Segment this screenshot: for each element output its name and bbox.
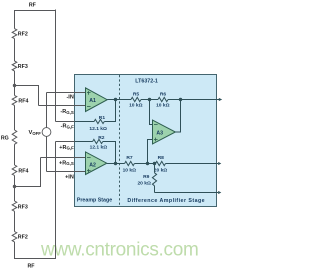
node A2 out (114, 162, 117, 165)
svg-text:-IN: -IN (66, 95, 73, 101)
node A3 ref tap (146, 162, 149, 165)
wire: +RG,F row (56, 141, 93, 143)
wire: R5-R6 link (141, 99, 158, 101)
wire: right column lower (55, 142, 57, 259)
ref arrow mid (218, 162, 221, 165)
A2 minus (87, 157, 91, 159)
resistor RF2 (top) (12, 29, 17, 39)
output arrow top (219, 98, 222, 101)
svg-text:RF3: RF3 (18, 204, 28, 210)
svg-text:12.1 kΩ: 12.1 kΩ (89, 126, 107, 132)
svg-text:RF4: RF4 (18, 168, 28, 174)
wire: -IN row (47, 92, 86, 94)
svg-text:Difference Amplifier Stage: Difference Amplifier Stage (127, 198, 205, 204)
resistor R1 (94, 119, 104, 123)
wire: R9 bottom out (155, 192, 219, 194)
svg-text:+RG,S: +RG,S (59, 160, 74, 166)
wire: +IN row (47, 171, 86, 173)
arrow bottom (218, 191, 221, 194)
svg-text:RF3: RF3 (18, 64, 28, 70)
wire: A3 out loop (175, 100, 180, 133)
wire: VOFF upper stem (46, 93, 48, 128)
wire: A1 out row (107, 99, 131, 101)
node R5/R6 tap (148, 98, 151, 101)
wire: -RG,S row (39, 105, 86, 107)
svg-text:-RG,S: -RG,S (60, 109, 73, 115)
svg-text:10 kΩ: 10 kΩ (156, 102, 170, 108)
wire: top rail RF (14, 10, 56, 12)
resistor RG (12, 130, 17, 144)
svg-text:RF: RF (27, 264, 35, 270)
resistor R6 (158, 97, 168, 101)
node A1 out (114, 98, 117, 101)
svg-text:10 kΩ: 10 kΩ (129, 102, 143, 108)
svg-text:RF2: RF2 (18, 235, 28, 241)
op-amp A3 (153, 120, 176, 144)
svg-text:Preamp Stage: Preamp Stage (77, 198, 112, 204)
svg-text:RF4: RF4 (18, 99, 28, 105)
svg-text:20 kΩ: 20 kΩ (154, 167, 168, 173)
svg-text:LT6372-1: LT6372-1 (135, 79, 158, 85)
wire: right column upper (55, 10, 57, 122)
stage divider (dashed) (119, 75, 121, 206)
svg-text:R6: R6 (160, 92, 167, 98)
svg-text:RF: RF (29, 2, 37, 8)
IC block LT6372-1 (75, 75, 217, 207)
node R9 tap (153, 162, 156, 165)
wire: A2 out row (107, 163, 125, 165)
A3 plus (154, 139, 158, 141)
resistor RF4 (top) (12, 95, 17, 105)
svg-text:-RG,F: -RG,F (61, 124, 74, 130)
wire: +RG,S row (41, 157, 86, 159)
svg-text:R7: R7 (126, 155, 133, 161)
svg-text:+IN: +IN (65, 175, 74, 181)
svg-text:10 kΩ: 10 kΩ (123, 167, 137, 173)
node: +RG,S tap junction (13, 185, 16, 188)
A2 plus (87, 170, 91, 172)
wire: R2 right + down to A2 out (103, 142, 116, 164)
svg-text:20 kΩ: 20 kΩ (137, 180, 151, 186)
node: -RG,S tap junction (13, 84, 16, 87)
A3 minus (154, 124, 158, 126)
svg-text:www.cntronics.com: www.cntronics.com (40, 240, 199, 261)
svg-text:+RG,F: +RG,F (59, 145, 74, 151)
resistor RF3 (bottom) (12, 201, 17, 211)
resistor R7 (125, 161, 135, 165)
wire: A3 plus tap (148, 140, 153, 164)
resistor R5 (131, 97, 141, 101)
svg-text:12.1 kΩ: 12.1 kΩ (90, 145, 108, 151)
svg-text:R1: R1 (99, 115, 106, 121)
A1 minus (87, 106, 91, 108)
wire: -RG,F row (56, 121, 95, 123)
wire: +RG,S jog (15, 158, 41, 187)
svg-text:RG: RG (1, 135, 9, 141)
wire: R6 to output (168, 99, 220, 101)
resistor RF2 (bottom) (12, 232, 17, 242)
svg-text:A1: A1 (89, 98, 96, 104)
wire: R1 left lead (75, 121, 94, 123)
wire: A3 minus tap (150, 100, 153, 125)
resistor R8 (156, 161, 166, 165)
op-amp A1 (86, 88, 108, 112)
wire: R7-R8 link (134, 163, 155, 165)
svg-text:R2: R2 (98, 135, 105, 141)
svg-text:R8: R8 (158, 155, 165, 161)
wire: left column (14, 10, 16, 29)
source VOFF (42, 128, 51, 137)
svg-text:VOFF: VOFF (29, 130, 42, 136)
svg-text:RF2: RF2 (18, 32, 28, 38)
svg-text:R5: R5 (133, 92, 140, 98)
svg-text:A3: A3 (156, 130, 163, 136)
resistor R2 (93, 139, 103, 143)
resistor RF3 (top) (12, 61, 17, 71)
wire: bottom rail RF (14, 258, 56, 260)
svg-text:R9: R9 (143, 174, 150, 180)
node A3 feedback (179, 98, 182, 101)
wire: VOFF lower stem (46, 136, 48, 171)
resistor RF4 (bottom) (12, 165, 17, 176)
op-amp A2 (86, 152, 107, 175)
A1 plus (87, 92, 91, 94)
wire: R2 left lead (75, 141, 93, 143)
wire: -RG,S jog (15, 86, 39, 106)
svg-text:A2: A2 (89, 162, 96, 168)
wire: R1 right + up to A1 out (104, 100, 115, 122)
resistor R9 (154, 164, 156, 173)
wire: R8 to ref pin (166, 163, 219, 165)
